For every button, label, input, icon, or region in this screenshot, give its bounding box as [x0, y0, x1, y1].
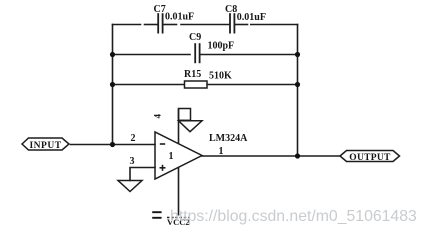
capacitor C7 [158, 13, 162, 33]
node: left vertical / R15 branch [110, 82, 115, 87]
wire: C9 branch left [113, 54, 191, 56]
junction dots [110, 52, 300, 159]
svg-text:C9: C9 [189, 32, 201, 43]
svg-text:3: 3 [130, 156, 135, 167]
wire: output to port [202, 155, 340, 157]
port INPUT [22, 138, 69, 150]
svg-text:0.01uF: 0.01uF [165, 12, 194, 23]
wire: right of C8 [235, 24, 247, 26]
node: right vertical / R15 branch [295, 82, 300, 87]
power port VCC2 bar [167, 217, 189, 219]
svg-text:510K: 510K [209, 71, 232, 82]
svg-text:2: 2 [131, 133, 136, 144]
op-amp U? LM324A triangle [155, 132, 202, 179]
wire: C9 branch right [200, 54, 298, 56]
node: right vertical / C9 branch [295, 52, 300, 57]
svg-text:C7: C7 [154, 4, 166, 15]
wire: top horizontal (C7/C8 branch) [113, 24, 141, 26]
svg-text:C8: C8 [225, 4, 237, 15]
svg-text:LM324A: LM324A [209, 133, 248, 144]
wire: pin 3 stub [130, 168, 155, 181]
node: left vertical / input wire [110, 142, 115, 147]
svg-text:1: 1 [169, 151, 174, 162]
node: left vertical / C9 branch [110, 52, 115, 57]
op-amp minus input marker [160, 143, 165, 145]
wire: input to pin 2 [71, 144, 156, 146]
resistor R15 [185, 81, 208, 88]
svg-text:https://blog.csdn.net/m0_51061: https://blog.csdn.net/m0_51061483 [170, 208, 417, 225]
svg-text:INPUT: INPUT [29, 141, 61, 151]
wire: between C7 and C8 [163, 24, 177, 26]
op-amp plus input marker [160, 165, 166, 171]
wire: pin 4 stub [178, 109, 180, 145]
wire: pin 11 stub to VCC2 [178, 167, 180, 215]
wire: R15 branch right [207, 84, 298, 86]
ground symbol at pin 3 [118, 181, 142, 192]
capacitor C9 [195, 43, 199, 63]
port OUTPUT [340, 151, 400, 162]
pin 11 label (rotated digits drawn as bars) [152, 212, 161, 218]
svg-text:R15: R15 [184, 69, 201, 80]
wire: right feedback vertical [297, 25, 299, 157]
svg-text:1: 1 [219, 146, 224, 157]
wire: R15 branch left [113, 84, 185, 86]
ground flag symbol at pin 4: square [179, 109, 191, 121]
svg-text:0.01uF: 0.01uF [237, 12, 266, 23]
node: right vertical / output wire [295, 153, 300, 158]
svg-text:4: 4 [153, 113, 163, 118]
capacitor C8 [230, 13, 234, 33]
svg-text:OUTPUT: OUTPUT [349, 153, 391, 163]
svg-text:100pF: 100pF [208, 41, 235, 52]
ground flag symbol at pin 4: pennant triangle [179, 121, 203, 132]
wire: left feedback vertical [112, 25, 114, 145]
